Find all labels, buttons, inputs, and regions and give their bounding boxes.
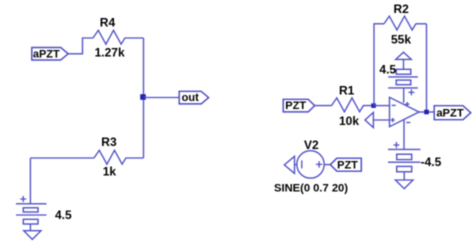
resistor R4 xyxy=(93,30,144,44)
svg-text:4.5: 4.5 xyxy=(55,208,72,222)
ground (left battery) xyxy=(24,231,41,240)
net flag PZT (right input) xyxy=(283,99,315,112)
wire junction to inverting input xyxy=(374,105,390,107)
wire ground to non-inverting input xyxy=(373,119,389,121)
battery V- cell rect1 xyxy=(397,154,412,159)
V2 plus marker xyxy=(316,161,322,167)
battery V- bottom lead xyxy=(403,172,405,180)
wire V2 right to PZT flag xyxy=(324,164,330,166)
lead ground to V+ battery xyxy=(403,59,405,69)
battery V+ plate1 xyxy=(388,76,418,78)
svg-text:R3: R3 xyxy=(101,135,117,149)
battery V3 cell rect2 xyxy=(23,219,38,224)
resistor R3 xyxy=(94,150,144,164)
voltage source V2 circle xyxy=(297,151,324,178)
svg-text:55k: 55k xyxy=(391,33,411,47)
svg-text:R2: R2 xyxy=(394,2,410,16)
battery V+ cell rect2 xyxy=(396,80,411,85)
battery V+ plate2 xyxy=(388,87,418,89)
svg-text:-4.5: -4.5 xyxy=(421,155,442,169)
svg-text:V2: V2 xyxy=(304,138,319,152)
op-amp U1 triangle xyxy=(390,97,420,126)
ground (below V- battery) xyxy=(395,180,413,189)
wire junction up to R2 xyxy=(374,24,384,106)
battery V+ cell rect1 xyxy=(396,69,411,74)
inverted ground (above V+ battery) xyxy=(396,52,412,59)
svg-text:1k: 1k xyxy=(103,165,117,179)
battery V- plate1 xyxy=(388,148,420,150)
op-amp V+ marker xyxy=(405,102,409,106)
battery V3 plate1 xyxy=(16,203,47,205)
net flag PZT (at V2) xyxy=(330,158,361,171)
wire R3 left to battery xyxy=(30,157,94,159)
resistor R2 xyxy=(384,16,427,30)
op-amp non-inverting input marker xyxy=(391,118,395,122)
svg-text:out: out xyxy=(182,92,199,104)
wire R4 right down to R3 xyxy=(143,38,145,158)
wire PZT flag to R1 xyxy=(315,105,332,107)
battery V3 4.5 plus sign xyxy=(20,196,26,202)
net flag out xyxy=(179,91,208,104)
net flag aPZT (left input) xyxy=(32,48,68,61)
wire op-amp V- pin down xyxy=(403,120,405,149)
svg-text:aPZT: aPZT xyxy=(436,108,464,120)
wire junction to out flag xyxy=(144,97,180,99)
battery V3 plate2 xyxy=(16,214,47,216)
wire battery V+ to op-amp xyxy=(403,88,405,103)
op-amp inverting input marker xyxy=(392,104,396,106)
wire down to battery V3 xyxy=(29,158,31,204)
battery V- plus sign xyxy=(393,142,399,148)
op-amp V- marker xyxy=(406,122,410,124)
resistor R1 xyxy=(332,98,375,112)
svg-text:1.27k: 1.27k xyxy=(95,46,125,60)
wire V2 left to ground xyxy=(295,164,297,166)
svg-text:aPZT: aPZT xyxy=(33,48,60,60)
svg-text:PZT: PZT xyxy=(285,100,306,112)
wire from aPZT flag to R4 xyxy=(68,38,93,54)
svg-text:10k: 10k xyxy=(339,114,359,128)
ground flag (rotated, at V2 minus) xyxy=(284,156,294,173)
junction node output xyxy=(424,110,429,115)
battery V3 cell rect1 xyxy=(23,208,38,212)
svg-text:PZT: PZT xyxy=(337,160,358,172)
battery V+ plus sign xyxy=(408,89,414,95)
V2 minus marker (rotated) xyxy=(301,160,303,168)
net flag aPZT (right output) xyxy=(434,106,471,120)
junction node inverting input xyxy=(371,103,376,108)
wire R2 right down to output xyxy=(426,24,428,112)
wire op-amp output to aPZT flag xyxy=(419,111,434,113)
svg-text:R1: R1 xyxy=(339,84,355,98)
ground flag (rotated, at non-inverting input) xyxy=(365,112,373,127)
svg-text:R4: R4 xyxy=(100,15,116,29)
battery V- plate2 xyxy=(388,161,420,163)
junction node out xyxy=(140,94,146,100)
battery V- cell rect2 xyxy=(397,166,412,171)
svg-text:4.5: 4.5 xyxy=(379,62,396,76)
battery V3 bottom lead xyxy=(29,224,31,231)
svg-text:SINE(0 0.7 20): SINE(0 0.7 20) xyxy=(274,183,348,195)
